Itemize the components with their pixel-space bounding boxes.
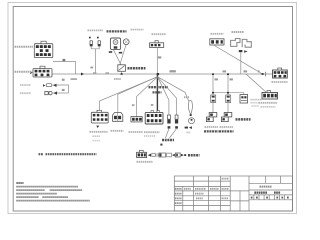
connector X2 (lower left, 8-pin) (30, 66, 52, 77)
C1 dark label (204, 130, 219, 132)
title row: approve text (175, 202, 182, 204)
gray note line3 (252, 105, 259, 107)
flasher unit K2 (231, 39, 252, 48)
plug pair S1 (43, 84, 57, 87)
wire gauge label 8 (upper) (63, 59, 66, 61)
connector X5 (junction box, 7-pin) (273, 68, 288, 78)
lamp H2 (97, 37, 101, 47)
fan wire to fuse E (157, 77, 169, 115)
wire label 18 near X10 (151, 104, 154, 106)
wire label 24 (90, 67, 93, 69)
C1 gray label (205, 126, 219, 128)
flasher drop wire (240, 52, 242, 74)
flasher gray label above (232, 31, 244, 33)
cluster terminal dash right (119, 52, 122, 54)
tech text line 2 (16, 186, 78, 188)
wire from plug S2 (53, 92, 68, 94)
cable note dark text line1 (149, 86, 169, 88)
tiny mark below 4x7 note (160, 144, 162, 146)
label 36 under bus (114, 78, 121, 80)
assembly fuse body (159, 153, 166, 157)
fan wire to lamp loop W1 (157, 77, 189, 102)
assembly ring (156, 154, 158, 156)
inline fuse F (175, 115, 178, 129)
assembly end plug (175, 153, 180, 157)
assembly dark name text (188, 154, 200, 157)
plug pair S2 (45, 91, 57, 94)
title row: design/standardization text (175, 179, 229, 194)
wire label 18 near X9 (132, 104, 135, 106)
bus junction dot right (262, 73, 264, 75)
X7 gray label line1 (90, 131, 108, 133)
wire below fuse C2 (227, 103, 229, 113)
X6 gray label line1 (259, 102, 278, 104)
label: connector X2 (left margin) (15, 71, 34, 73)
label above lamps (88, 29, 104, 31)
outer sheet border (8, 3, 297, 214)
connector X7 (8-pin, lower row) (91, 110, 108, 123)
label 1.5B on bus (170, 70, 176, 72)
indicator lamp H3 (123, 39, 129, 45)
label: plug S1 (left margin) (20, 84, 31, 86)
label: plug S2 (left margin) (20, 92, 31, 94)
lamp H1 (89, 37, 93, 47)
boxed tag B1 (battery feed) (150, 41, 164, 48)
title block outline (174, 176, 292, 211)
X7 gray label line3 (93, 140, 101, 142)
assembly end arrows (181, 154, 186, 157)
B2 dark label below (236, 118, 251, 121)
dark note 4x7 under fuses (162, 139, 174, 142)
assembly arrow 2 (172, 154, 175, 157)
label (1) near loop wire (184, 96, 189, 98)
X3 gray label above (211, 33, 224, 35)
bus label 1 (258, 70, 260, 72)
assembly small plug (152, 153, 155, 156)
arrow terminal under loop (185, 126, 192, 129)
tech text line 6 (16, 200, 89, 202)
assembly sleeve (167, 153, 172, 157)
inline fuse E (167, 115, 170, 129)
tech text line 4 (16, 193, 57, 195)
connector X8 (2-pin trapezoid) (113, 113, 123, 122)
wire from plug S1 (53, 85, 69, 93)
fan wire to connector X7 (100, 77, 158, 113)
gray mark under arrow (187, 131, 191, 133)
flasher arrow mark (244, 50, 247, 53)
main bus wire (52, 73, 273, 75)
junction on bus (cable head) (157, 73, 159, 75)
main cable down to connector X10 (156, 74, 158, 112)
lead from H3 to relay (120, 45, 126, 65)
tech text line 5 (16, 196, 68, 198)
fan wire to connector X8 (118, 77, 158, 113)
flasher terminals (239, 50, 243, 52)
connector X1 (combination switch, 12-pin) (34, 41, 53, 57)
lamp plug C1 (206, 113, 216, 122)
bus label 16 (right) (244, 70, 248, 72)
note line (dark) (39, 153, 44, 155)
lead from cluster to relay (114, 50, 122, 65)
junction dot 2 on link (227, 92, 229, 94)
gray label above B1 (152, 33, 167, 35)
gray note line2 (251, 102, 261, 104)
word gaps in tech text (45, 189, 50, 191)
X10 gray label line1 (144, 131, 160, 133)
drawing number dark text (254, 192, 267, 194)
gray note lines right of B2 (251, 99, 263, 101)
assembly arrow 1 (148, 154, 151, 157)
diagonal wire bus to X6 (246, 74, 267, 93)
diagonal wire X3 to bus junction (214, 45, 263, 74)
X7 gray label line2 (93, 135, 101, 137)
lamp leads joining to bus (91, 47, 99, 49)
assembly gray label below (137, 161, 153, 163)
lamp loop W1 (hanging lamp) (188, 100, 194, 123)
cable note dark text line2 (153, 91, 162, 93)
connector X3 (top right feed) (210, 39, 224, 45)
tech requirements heading (16, 182, 23, 184)
connector X10 (10-pin main) (145, 111, 163, 124)
junction dot at relay/bus (121, 73, 123, 75)
wire gauge label 8 (mid) (62, 79, 65, 81)
small cell digit marks (251, 197, 289, 199)
wire below fuse C1 (212, 103, 214, 113)
relay name text (128, 67, 146, 70)
junction dot C1 top (212, 73, 214, 75)
instrument cluster U1 (110, 38, 120, 50)
junction dot C2 top (227, 73, 229, 75)
wire from connector X1 to bus (53, 62, 76, 74)
wire gauge label 8 (lower) (62, 89, 65, 91)
C2 gray label (220, 126, 234, 128)
wire label 10 (C1) (215, 78, 218, 80)
C2 dark label (219, 130, 234, 132)
label 24A on bus (93, 72, 96, 74)
fan wire to fuse F (157, 77, 176, 115)
fuse C1 (211, 95, 216, 103)
X9 gray label (129, 131, 144, 133)
wire junction arrow on bus (81, 73, 84, 76)
dark title above cluster (107, 30, 127, 32)
lamp drop wire (95, 49, 97, 74)
bottom inline-fuse assembly: connector (137, 150, 147, 157)
gray note right of title (131, 29, 144, 31)
relay K1 (118, 65, 126, 72)
X5 gray label below (272, 81, 288, 83)
title row: check text (175, 197, 228, 199)
wire label 10 (C2) (230, 78, 233, 80)
sheet info dark text (274, 192, 281, 194)
wire from fuse F down (170, 129, 177, 138)
wires from fuses to dark note (166, 129, 169, 138)
label: combination switch (left margin) (15, 46, 34, 48)
wire label 1B (158, 56, 161, 58)
B1 drop wire to bus (156, 48, 158, 75)
lamp plug C2 (221, 113, 231, 122)
arrow mark under X7 (96, 126, 99, 128)
fan wire to connector X9 (137, 77, 158, 117)
connector X9 (3-pin inline) (131, 117, 142, 122)
relay drop to bus (121, 71, 123, 74)
bus label 16 (left) (223, 70, 227, 72)
drop wire right circuit C1 (212, 74, 214, 95)
X10 gray label line2 (144, 135, 155, 137)
inner drawing frame (13, 7, 292, 212)
drop wire right circuit C2 (227, 74, 229, 95)
junction dots on link (212, 92, 214, 94)
drawing name gray text (260, 186, 273, 188)
X8 gray label (111, 130, 124, 132)
tick on bus (265, 72, 267, 77)
X6 gray label line2 (261, 106, 276, 108)
cluster terminal dash left (109, 51, 112, 53)
fuse C2 (226, 95, 231, 103)
link wire C1-C2-B2 (213, 92, 244, 94)
dome lamp box B2 (240, 93, 248, 103)
connector X6 (6-pin) (262, 91, 278, 99)
tech text line 3 (16, 189, 82, 191)
title row: biaoji/chushu cells text (175, 188, 219, 190)
